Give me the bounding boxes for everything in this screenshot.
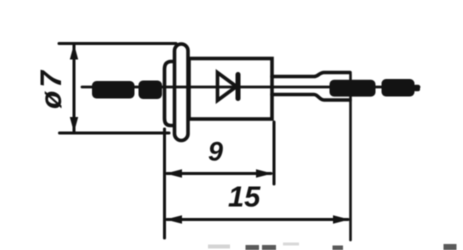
wire: right lead tip [414, 85, 421, 91]
wire: left lead crimp segment 1 [92, 81, 135, 99]
dimension ø7 extension line top [59, 42, 176, 45]
diode package flange [175, 44, 189, 141]
svg-text:15: 15 [228, 182, 261, 214]
dimension ø7 arrowhead up [70, 44, 78, 60]
dimension 9 dimension line [167, 172, 271, 175]
dimension ø7 dimension line [73, 45, 76, 132]
wire: right lead upper outline with crimp step [272, 73, 350, 77]
wire: left lead crimp segment 2 [139, 81, 163, 100]
dimension 9 arrowhead right [256, 169, 273, 177]
dimension 15 arrowhead right [333, 215, 350, 223]
dimension 9 arrowhead left [166, 169, 183, 177]
svg-text:ø7: ø7 [35, 68, 68, 109]
cropped caption fragment: letter top 2 [262, 245, 276, 250]
cropped caption fragment: faint smudge 2 [208, 245, 230, 249]
cropped caption fragment: letter top 4 [444, 244, 457, 250]
diode package cap lip [165, 62, 178, 126]
diode symbol VD anode triangle [218, 73, 237, 101]
dimension 15 dimension line [167, 218, 348, 221]
wire: axial lead centerline [82, 86, 419, 89]
dimension 9 extension line right [273, 122, 276, 184]
cropped caption fragment: faint smudge 1 [283, 243, 299, 246]
cropped caption fragment: letter top 1 [246, 245, 260, 250]
diode symbol VD cathode bar [236, 75, 241, 99]
diode package body [189, 59, 272, 120]
dimension ø7 arrowhead down [70, 117, 78, 133]
dimension 15 arrowhead left [166, 215, 183, 223]
wire: right lead lower outline with crimp step [272, 95, 350, 101]
cropped caption fragment: letter top 3 [333, 246, 344, 250]
dimension 15 extension line right (crimp edge) [349, 74, 352, 240]
wire: right lead crimp segment 1 [330, 80, 376, 97]
dimension 9 extension line left (shared with 15) [163, 129, 166, 238]
dimension ø7 extension line bottom [60, 132, 170, 135]
wire: right lead crimp segment 2 [382, 79, 415, 97]
svg-text:9: 9 [208, 137, 223, 167]
